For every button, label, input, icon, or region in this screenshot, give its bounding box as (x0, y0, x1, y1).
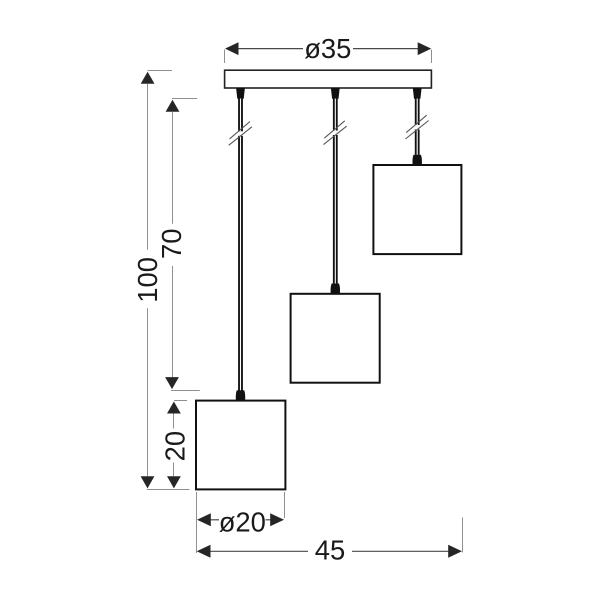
svg-text:70: 70 (156, 229, 187, 259)
svg-text:20: 20 (159, 431, 190, 461)
svg-text:ø35: ø35 (304, 33, 351, 64)
svg-text:ø20: ø20 (219, 506, 266, 537)
svg-text:45: 45 (315, 535, 345, 566)
svg-text:100: 100 (132, 257, 163, 303)
